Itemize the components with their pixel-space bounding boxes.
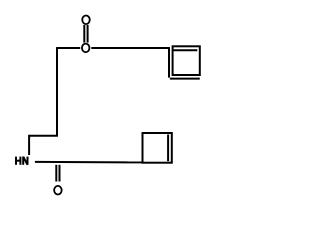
- carbonyl O (ester), atom label O: [82, 15, 90, 24]
- amide C=O double bond: [55, 165, 57, 182]
- amide O atom label: [54, 186, 62, 195]
- wire: chain vertical C1-C2: [56, 47, 58, 136]
- H of HN label: [16, 157, 20, 165]
- ester O atom label: [82, 44, 90, 53]
- ring B bottom edge: [170, 78, 200, 80]
- ring B left edge: [168, 47, 170, 78]
- cyclobutene ring A (top right): [173, 46, 200, 75]
- wire: ester O to chain C1: [57, 47, 80, 49]
- inner double-bond line of bottom-right ring: [167, 135, 169, 162]
- N of HN label: [23, 157, 27, 165]
- amide N-C wire: [35, 161, 143, 164]
- cyclobutene ring (bottom right): [143, 133, 172, 163]
- inner double-bond line (top edge of ring A): [173, 49, 197, 51]
- wire: chain horizontal C2-C3: [29, 135, 58, 137]
- wire: chain vertical C3-N: [28, 135, 30, 155]
- double bond C=O (ester): [83, 25, 85, 43]
- wire: ester O to ring B top-left: [91, 47, 169, 49]
